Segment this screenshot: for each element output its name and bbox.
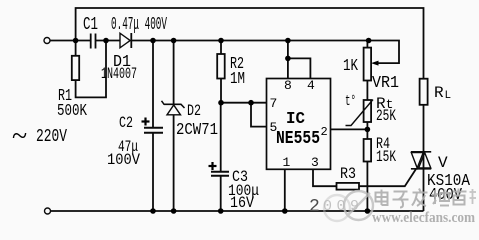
capacitor C1 (90, 34, 92, 49)
watermark chinese glyph 3 (412, 189, 428, 207)
svg-text:0.47μ 400V: 0.47μ 400V (111, 15, 167, 35)
resistor RL (420, 79, 428, 105)
wiper loop of VR1 (369, 41, 399, 64)
capacitor C2 branch wire (152, 41, 154, 128)
wire main top bus (50, 40, 90, 42)
wire pin3 to R3 (313, 169, 337, 186)
terminal top-left (44, 38, 50, 44)
svg-text:C2: C2 (119, 114, 133, 132)
plus sign C2 (142, 118, 150, 126)
ground rail bottom wire (51, 210, 424, 212)
capacitor C3 (211, 171, 229, 173)
wire pin2 to divider (331, 128, 368, 130)
svg-text:IC: IC (286, 110, 305, 129)
watermark chinese glyph 4 (432, 190, 449, 206)
svg-text:C1: C1 (83, 15, 98, 35)
svg-text:009: 009 (323, 198, 359, 215)
svg-text:16V: 16V (230, 194, 254, 212)
wire after C1 to D1 (96, 40, 120, 42)
svg-text:1: 1 (283, 155, 291, 170)
plus sign C3 (209, 162, 217, 170)
watermark chinese glyph 2 (393, 192, 409, 208)
wire pin1 to ground rail (284, 169, 286, 211)
svg-text:R: R (434, 84, 444, 102)
zener D2 (162, 101, 185, 108)
svg-text:2: 2 (321, 125, 328, 139)
wire to pin7 (221, 102, 267, 104)
svg-text:15K: 15K (376, 148, 396, 166)
triac V KS10A (411, 151, 431, 153)
terminal bottom-left (45, 208, 51, 214)
watermark glyph tail (470, 189, 477, 204)
zener D2 branch wire (173, 41, 175, 105)
resistor R1 (75, 41, 77, 56)
watermark chinese glyph 1 (376, 190, 388, 206)
resistor R2 (220, 41, 222, 55)
svg-text:4: 4 (307, 78, 315, 93)
svg-text:2: 2 (309, 197, 320, 217)
svg-text:500K: 500K (57, 102, 88, 121)
wire D1 cathode to VR1 junction (131, 40, 369, 42)
svg-text:1N4007: 1N4007 (101, 65, 137, 83)
svg-text:8: 8 (284, 78, 292, 93)
capacitor C3 branch wire (220, 103, 222, 172)
svg-text:1M: 1M (230, 70, 245, 89)
diode D1 (120, 33, 130, 48)
thermistor Rt (364, 100, 372, 122)
wire pin8 pin4 from bus (287, 41, 289, 79)
svg-text:NE555: NE555 (276, 129, 320, 149)
resistor R3 (337, 183, 360, 190)
wire top rail horizontal (76, 8, 424, 79)
svg-text:7: 7 (270, 96, 278, 111)
potentiometer VR1 branch (366, 41, 368, 48)
op-amp U1 IC NE555 box (267, 79, 331, 170)
svg-text:~: ~ (12, 121, 27, 152)
svg-text:100V: 100V (107, 151, 140, 169)
svg-text:R3: R3 (340, 165, 356, 183)
watermark chinese glyph 5 (453, 189, 467, 205)
capacitor C2 (144, 127, 163, 129)
wire to pin5 (251, 103, 267, 127)
watermark circle logo (324, 191, 373, 221)
wire R3 to triac gate (359, 169, 416, 186)
svg-text:t°: t° (345, 93, 356, 110)
svg-text:25K: 25K (376, 107, 396, 125)
svg-text:2CW71: 2CW71 (176, 121, 218, 140)
svg-text:220V: 220V (36, 127, 67, 147)
svg-text:1K: 1K (343, 57, 359, 76)
svg-text:3: 3 (311, 155, 319, 170)
resistor R4 (364, 139, 372, 162)
svg-text:www.elecfans.com: www.elecfans.com (372, 210, 475, 226)
svg-text:D2: D2 (187, 102, 201, 120)
svg-text:VR1: VR1 (372, 74, 399, 93)
svg-text:L: L (445, 90, 452, 102)
svg-text:V: V (438, 154, 448, 172)
